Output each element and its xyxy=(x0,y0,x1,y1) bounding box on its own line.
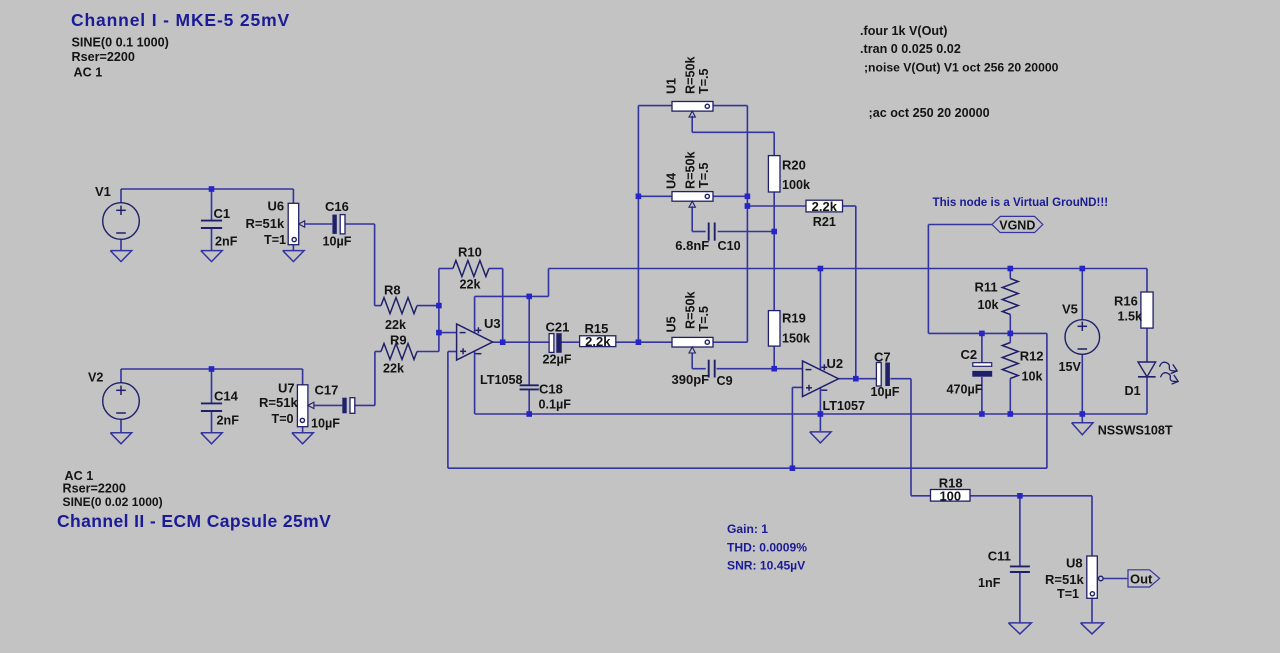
svg-text:C16: C16 xyxy=(325,199,349,214)
svg-text:V2: V2 xyxy=(88,371,103,385)
svg-text:Channel II - ECM Capsule 25mV: Channel II - ECM Capsule 25mV xyxy=(57,511,331,531)
svg-text:T=1: T=1 xyxy=(1057,587,1079,601)
svg-text:U1: U1 xyxy=(665,78,679,94)
svg-text:R16: R16 xyxy=(1114,293,1138,308)
svg-text:U7: U7 xyxy=(278,381,295,396)
svg-text:AC 1: AC 1 xyxy=(74,65,103,79)
svg-text:U5: U5 xyxy=(665,316,679,332)
svg-text:D1: D1 xyxy=(1125,384,1141,398)
svg-text:.tran 0 0.025 0.02: .tran 0 0.025 0.02 xyxy=(860,42,961,56)
svg-text:10k: 10k xyxy=(1022,369,1044,383)
svg-text:T=1: T=1 xyxy=(264,233,286,247)
svg-text:C17: C17 xyxy=(315,383,339,398)
svg-text:C14: C14 xyxy=(214,389,239,404)
svg-text:C10: C10 xyxy=(718,239,741,253)
svg-text:C11: C11 xyxy=(988,548,1011,563)
svg-text:6.8nF: 6.8nF xyxy=(675,238,709,253)
svg-text:T=.5: T=.5 xyxy=(697,68,711,94)
svg-text:22k: 22k xyxy=(383,362,405,376)
svg-text:U2: U2 xyxy=(827,356,844,371)
svg-text:This node is a Virtual GrouND!: This node is a Virtual GrouND!!! xyxy=(933,196,1109,209)
svg-text:390pF: 390pF xyxy=(672,372,710,387)
svg-text:C7: C7 xyxy=(874,350,891,365)
svg-text:R11: R11 xyxy=(975,279,998,294)
svg-text:R20: R20 xyxy=(782,158,806,173)
svg-text:R=51k: R=51k xyxy=(246,216,285,231)
svg-text:NSSWS108T: NSSWS108T xyxy=(1098,424,1173,438)
svg-text:THD: 0.0009%: THD: 0.0009% xyxy=(727,541,807,555)
svg-text:150k: 150k xyxy=(782,332,811,346)
svg-text:;noise V(Out) V1 oct 256 20 20: ;noise V(Out) V1 oct 256 20 20000 xyxy=(864,60,1059,74)
svg-text:T=.5: T=.5 xyxy=(697,306,711,332)
svg-text:R19: R19 xyxy=(782,311,806,326)
svg-text:VGND: VGND xyxy=(999,218,1035,232)
svg-text:Channel I - MKE-5 25mV: Channel I - MKE-5 25mV xyxy=(71,10,290,30)
svg-text:R12: R12 xyxy=(1020,349,1044,364)
svg-text:C9: C9 xyxy=(717,374,733,388)
svg-text:2.2k: 2.2k xyxy=(812,199,838,214)
svg-text:V1: V1 xyxy=(95,184,111,199)
svg-text:LT1057: LT1057 xyxy=(823,399,865,413)
svg-text:22k: 22k xyxy=(460,278,482,292)
svg-text:R=50k: R=50k xyxy=(684,56,698,94)
svg-text:R=51k: R=51k xyxy=(259,395,298,410)
svg-text:;ac oct 250 20 20000: ;ac oct 250 20 20000 xyxy=(869,106,990,120)
svg-text:1.5k: 1.5k xyxy=(1118,309,1144,323)
svg-text:100k: 100k xyxy=(782,178,811,192)
svg-text:22k: 22k xyxy=(385,318,407,332)
svg-text:R=50k: R=50k xyxy=(684,151,698,189)
svg-text:15V: 15V xyxy=(1059,360,1082,374)
svg-text:C21: C21 xyxy=(546,320,570,335)
svg-text:.four 1k V(Out): .four 1k V(Out) xyxy=(860,24,947,38)
svg-text:C2: C2 xyxy=(961,347,978,362)
svg-text:Gain: 1: Gain: 1 xyxy=(727,522,768,536)
svg-text:10µF: 10µF xyxy=(871,385,900,399)
svg-text:Rser=2200: Rser=2200 xyxy=(63,482,126,496)
svg-text:2.2k: 2.2k xyxy=(585,334,611,349)
svg-text:R=50k: R=50k xyxy=(684,291,698,329)
svg-text:C18: C18 xyxy=(539,382,563,397)
svg-text:U8: U8 xyxy=(1066,555,1083,570)
svg-text:T=.5: T=.5 xyxy=(697,162,711,188)
svg-text:10k: 10k xyxy=(978,298,1000,312)
svg-text:2nF: 2nF xyxy=(217,414,240,428)
svg-text:Rser=2200: Rser=2200 xyxy=(72,50,135,64)
svg-text:T=0: T=0 xyxy=(272,412,294,426)
svg-text:2nF: 2nF xyxy=(215,235,238,249)
svg-text:R9: R9 xyxy=(390,333,407,348)
svg-text:R8: R8 xyxy=(384,283,401,298)
svg-text:U6: U6 xyxy=(268,198,285,213)
svg-text:SINE(0 0.1 1000): SINE(0 0.1 1000) xyxy=(72,35,169,49)
svg-text:100: 100 xyxy=(939,489,961,504)
svg-text:470µF: 470µF xyxy=(947,383,983,397)
svg-text:R10: R10 xyxy=(458,245,482,260)
svg-text:10µF: 10µF xyxy=(323,234,352,248)
svg-text:V5: V5 xyxy=(1062,302,1078,317)
svg-text:1nF: 1nF xyxy=(978,576,1001,590)
svg-text:U4: U4 xyxy=(665,173,679,189)
svg-text:C1: C1 xyxy=(214,206,231,221)
svg-text:22µF: 22µF xyxy=(543,353,572,367)
svg-text:R=51k: R=51k xyxy=(1045,572,1084,587)
svg-text:SINE(0 0.02 1000): SINE(0 0.02 1000) xyxy=(63,495,163,509)
svg-text:LT1058: LT1058 xyxy=(480,373,522,387)
svg-text:Out: Out xyxy=(1130,571,1153,586)
svg-text:10µF: 10µF xyxy=(311,417,340,431)
svg-text:U3: U3 xyxy=(484,316,501,331)
svg-text:R21: R21 xyxy=(813,215,836,229)
svg-text:0.1µF: 0.1µF xyxy=(539,398,572,412)
svg-text:SNR: 10.45µV: SNR: 10.45µV xyxy=(727,559,805,573)
